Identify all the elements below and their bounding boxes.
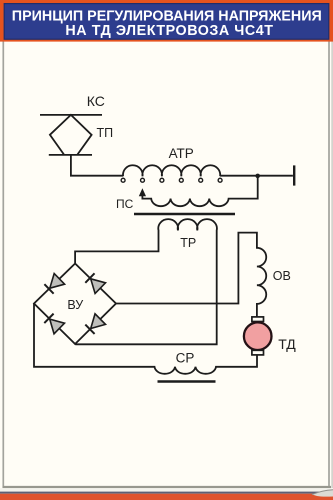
svg-text:ОВ: ОВ (273, 269, 291, 283)
svg-text:ПС: ПС (116, 197, 134, 211)
svg-text:ТД: ТД (278, 336, 296, 352)
svg-text:ПРИНЦИП РЕГУЛИРОВАНИЯ НАПРЯЖЕН: ПРИНЦИП РЕГУЛИРОВАНИЯ НАПРЯЖЕНИЯ (12, 8, 322, 24)
svg-text:ТП: ТП (97, 126, 114, 140)
svg-text:КС: КС (87, 93, 105, 109)
svg-text:НА ТД ЭЛЕКТРОВОЗА ЧС4Т: НА ТД ЭЛЕКТРОВОЗА ЧС4Т (65, 23, 273, 39)
svg-text:СР: СР (176, 350, 195, 365)
svg-text:ВУ: ВУ (67, 298, 83, 312)
svg-text:ТР: ТР (180, 236, 196, 250)
svg-text:АТР: АТР (169, 146, 194, 161)
